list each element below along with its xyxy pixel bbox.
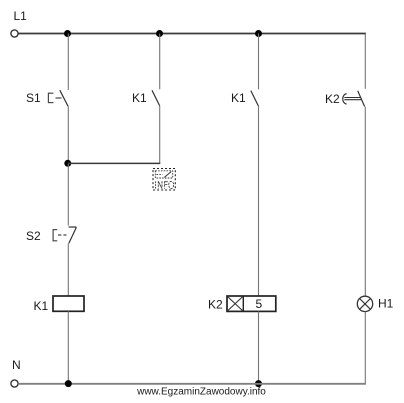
lamp H1 <box>357 296 372 311</box>
wire bottom rail N <box>18 383 366 385</box>
coil K2 timer box with X <box>227 296 276 311</box>
junction dot bottom rail branch C <box>255 380 262 387</box>
wire branch D upper <box>364 34 366 89</box>
pushbutton S1 (NO) <box>48 90 68 106</box>
coil K1 <box>53 296 84 311</box>
watermark EZ INFO box <box>153 169 175 191</box>
svg-text:K1: K1 <box>231 91 246 105</box>
node N label <box>12 358 21 372</box>
svg-text:S1: S1 <box>26 91 41 105</box>
svg-text:K1: K1 <box>132 91 147 105</box>
svg-text:K2: K2 <box>325 92 340 106</box>
junction dot top rail branch B <box>156 30 163 37</box>
wire branch C middle <box>258 106 260 296</box>
timed contact K2 label <box>325 92 340 106</box>
wire branch D lower <box>364 312 366 384</box>
terminal L1 <box>11 30 18 37</box>
wire branch A bottom (K1 coil to N rail) <box>67 311 69 383</box>
timed contact K2 (NO on-delay) <box>343 91 365 107</box>
coil K1 label <box>34 299 49 313</box>
wire top rail L1 <box>18 33 366 35</box>
junction dot top rail branch A <box>64 30 71 37</box>
pushbutton S1 label <box>26 91 41 105</box>
junction dot bottom rail branch A <box>65 380 72 387</box>
wire branch B lower <box>159 106 161 164</box>
junction dot branch A/B <box>64 160 71 167</box>
pushbutton S2 label <box>26 229 41 243</box>
svg-text:S2: S2 <box>26 229 41 243</box>
svg-text:www.EgzaminZawodowy.info: www.EgzaminZawodowy.info <box>136 386 266 397</box>
svg-text:5: 5 <box>256 297 263 311</box>
wire branch A (junction to S2) <box>67 163 69 225</box>
wire branch B upper <box>159 34 161 90</box>
coil K2 label <box>208 298 223 312</box>
lamp H1 label <box>378 297 394 311</box>
wire branch A upper <box>67 34 69 91</box>
node L1 label <box>14 9 28 23</box>
terminal N <box>11 380 18 387</box>
watermark URL www.EgzaminZawodowy.info <box>136 386 266 397</box>
contact K1 label (branch C) <box>231 91 246 105</box>
svg-text:L1: L1 <box>14 9 28 23</box>
svg-text:N: N <box>12 358 21 372</box>
wire branch B to junction <box>68 162 161 164</box>
wire branch D middle <box>364 107 366 296</box>
contact K1 (NO, branch C) <box>251 91 259 106</box>
svg-text:K1: K1 <box>34 299 49 313</box>
junction dot top rail branch C <box>255 30 262 37</box>
wire branch C lower <box>258 311 260 383</box>
wire branch A middle (S1 to junction) <box>67 106 69 163</box>
svg-text:H1: H1 <box>378 297 394 311</box>
svg-text:K2: K2 <box>208 298 223 312</box>
wire branch C upper <box>258 34 260 90</box>
contact K1 label (branch B) <box>132 91 147 105</box>
coil K2 time value 5 <box>256 297 263 311</box>
contact K1 (NO, branch B) <box>152 90 160 105</box>
wire branch A lower (S2 to K1 coil) <box>67 244 69 297</box>
pushbutton S2 (NC) <box>53 227 77 243</box>
